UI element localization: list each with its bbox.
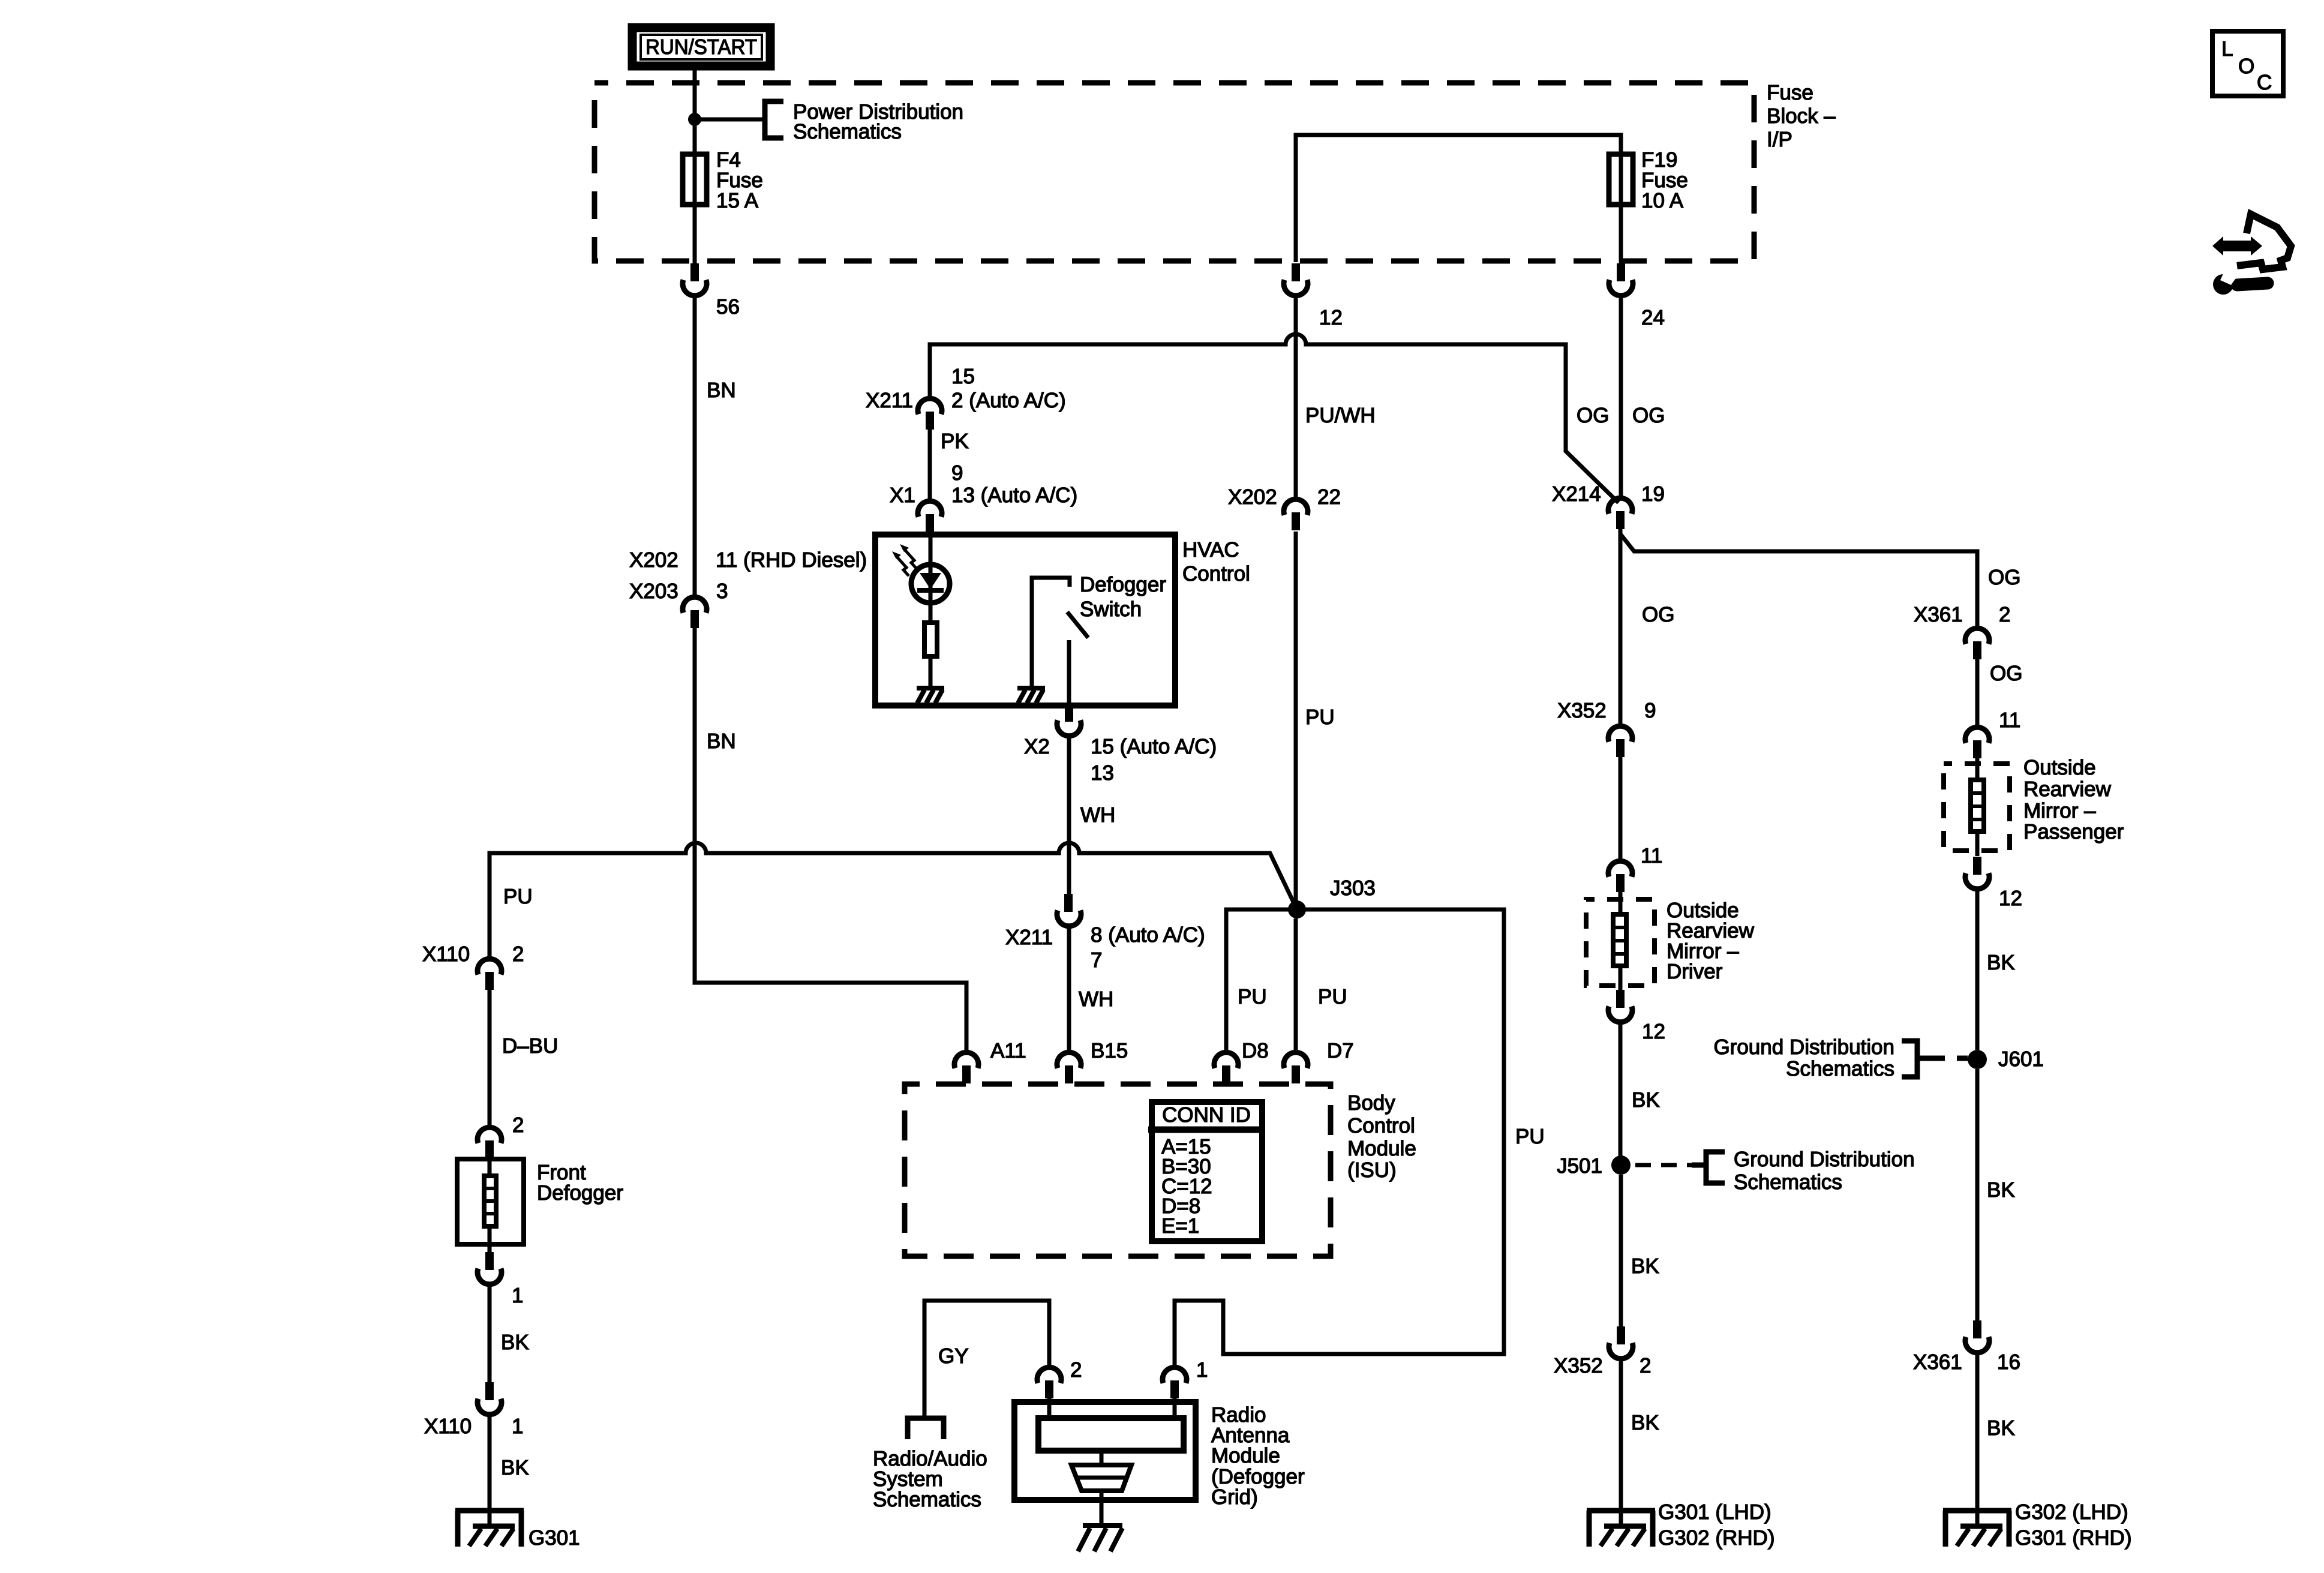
HVAC Control box (875, 535, 1175, 706)
svg-text:7: 7 (1091, 948, 1102, 972)
label G301 (LHD) G302 (RHD) (1658, 1500, 1774, 1550)
connector radio antenna pin 2 (1037, 1367, 1061, 1398)
svg-text:D7: D7 (1327, 1039, 1354, 1062)
label X110 1 (424, 1415, 523, 1438)
svg-text:BK: BK (1987, 951, 2015, 974)
label F19 Fuse 10 A (1641, 148, 1688, 212)
connector pin 24 (1609, 263, 1633, 296)
ground chassis switch leg (1017, 688, 1045, 703)
off-page bracket Power Distribution (765, 101, 783, 138)
label HVAC Control (1182, 538, 1250, 586)
outside rearview mirror passenger dashed box (1944, 764, 2010, 851)
wire BK X352-2 to G301 (1619, 1359, 1623, 1527)
svg-text:OG: OG (1990, 662, 2022, 685)
wire BK defogger to X110-1 (488, 1284, 492, 1382)
wire X1 into HVAC (929, 532, 933, 562)
svg-text:Schematics: Schematics (1786, 1057, 1894, 1080)
connector X214 pin 19 (1608, 498, 1632, 529)
svg-text:Defogger: Defogger (537, 1181, 623, 1205)
antenna element bar in radio module (1038, 1398, 1184, 1451)
svg-text:X110: X110 (424, 1415, 472, 1438)
label Front Defogger (537, 1161, 623, 1205)
svg-text:11: 11 (1999, 709, 2020, 732)
connector X352 pin 9 (1608, 726, 1632, 757)
label Body Control Module (ISU) (1347, 1091, 1416, 1182)
resistor grid front defogger (482, 1158, 498, 1252)
label F4 Fuse 15 A (716, 148, 763, 212)
svg-text:12: 12 (1319, 306, 1343, 329)
svg-text:BK: BK (1632, 1088, 1660, 1112)
wire BK X110-1 to G301 (488, 1415, 492, 1527)
svg-text:56: 56 (716, 295, 740, 319)
wire J303 to D7 (1294, 918, 1298, 1052)
wire fuse block top bus to F19 (1296, 135, 1621, 262)
wire OG X361 to passenger mirror (1975, 659, 1980, 727)
connector B15 (1057, 1052, 1081, 1083)
svg-text:24: 24 (1641, 306, 1665, 329)
svg-text:Schematics: Schematics (793, 120, 902, 143)
label Radio Antenna Module (Defogger Grid) (1211, 1403, 1305, 1509)
svg-text:12: 12 (1999, 887, 2022, 910)
svg-text:D8: D8 (1242, 1039, 1269, 1062)
svg-text:WH: WH (1079, 987, 1113, 1011)
label Outside Rearview Mirror - Passenger (2023, 756, 2124, 843)
svg-text:PU: PU (1305, 706, 1335, 729)
front defogger box (457, 1159, 524, 1244)
wire BK J501 to X352-2 (1619, 1175, 1623, 1326)
svg-text:11 (RHD Diesel): 11 (RHD Diesel) (716, 548, 867, 572)
label X202 X203 pins 11/3 (629, 548, 867, 603)
label X361 16 (1913, 1350, 2020, 1374)
svg-text:C: C (2257, 71, 2272, 94)
svg-text:Module: Module (1347, 1137, 1416, 1160)
svg-text:PU: PU (503, 885, 533, 908)
svg-text:X2: X2 (1024, 735, 1050, 758)
svg-text:1: 1 (512, 1284, 523, 1307)
svg-text:Switch: Switch (1080, 598, 1142, 621)
svg-text:1: 1 (512, 1415, 523, 1438)
label X2 15 (Auto A/C) 13 (1024, 735, 1217, 785)
resistor heater passenger mirror (1969, 758, 1986, 856)
connector D7 (1284, 1052, 1308, 1083)
label Defogger Switch (1080, 573, 1166, 621)
connector X361 pin 2 (1965, 628, 1989, 659)
svg-text:Body: Body (1347, 1091, 1395, 1115)
svg-text:OG: OG (1642, 603, 1674, 626)
connector X202/X203 pin 3 (683, 597, 707, 628)
label Ground Distribution Schematics (J601) (1713, 1035, 1894, 1080)
wire PU X202-22 to J303 (1294, 532, 1298, 909)
svg-text:12: 12 (1642, 1020, 1665, 1043)
fuse block I/P dashed box (594, 83, 1754, 261)
off-page bracket Ground Distribution (J501) (1692, 1152, 1725, 1183)
off-page bracket Ground Distribution (J601) (1902, 1041, 1945, 1077)
connector A11 (954, 1052, 978, 1083)
svg-text:X214: X214 (1552, 482, 1601, 506)
ground G301/G302 driver (1587, 1511, 1655, 1547)
svg-text:10 A: 10 A (1641, 189, 1684, 212)
connector X211 pin 8/7 (1057, 894, 1081, 926)
svg-text:9: 9 (951, 461, 963, 485)
LED indicator lamp in HVAC (892, 544, 950, 620)
label Outside Rearview Mirror - Driver (1667, 899, 1755, 983)
wire resistor to ground (929, 659, 933, 688)
label Radio/Audio System Schematics (873, 1447, 987, 1511)
svg-text:E=1: E=1 (1161, 1214, 1199, 1238)
svg-text:2: 2 (1999, 603, 2010, 626)
wire junction to Power Distribution bracket (695, 118, 762, 122)
svg-text:Schematics: Schematics (873, 1488, 981, 1511)
svg-text:11: 11 (1641, 844, 1662, 867)
label X211 8 (Auto A/C) 7 (1005, 923, 1205, 972)
svg-text:Passenger: Passenger (2023, 820, 2124, 843)
connector passenger mirror pin 11 (1965, 727, 1989, 758)
svg-text:PU/WH: PU/WH (1305, 404, 1376, 427)
svg-text:13: 13 (1091, 761, 1114, 785)
svg-text:OG: OG (1632, 404, 1665, 427)
wire PK X211 to X1 (928, 430, 932, 501)
connector driver mirror pin 11 (1608, 861, 1632, 892)
svg-text:B15: B15 (1091, 1039, 1128, 1062)
label X214 19 (1552, 482, 1665, 506)
connector front defogger pin 1 (478, 1252, 502, 1284)
connector X352 pin 2 (1609, 1326, 1633, 1359)
svg-text:15 (Auto A/C): 15 (Auto A/C) (1091, 735, 1217, 758)
wire BK driver mirror to J501 (1619, 1022, 1623, 1165)
svg-text:9: 9 (1644, 699, 1656, 722)
svg-text:D–BU: D–BU (502, 1034, 558, 1058)
svg-text:X202: X202 (629, 548, 678, 572)
svg-text:15: 15 (951, 365, 975, 388)
node junction at F4 feed (688, 113, 701, 126)
node J501 junction (1611, 1155, 1631, 1175)
svg-text:HVAC: HVAC (1182, 538, 1239, 562)
connector passenger mirror pin 12 (1965, 857, 1989, 889)
svg-text:J601: J601 (1998, 1047, 2044, 1071)
svg-text:BK: BK (1631, 1254, 1659, 1278)
connector X110 pin 1 (478, 1382, 502, 1415)
svg-text:PU: PU (1515, 1125, 1545, 1148)
svg-text:(ISU): (ISU) (1347, 1158, 1397, 1182)
ground chassis radio antenna (1078, 1526, 1122, 1551)
svg-text:Control: Control (1347, 1114, 1415, 1137)
svg-text:Module: Module (1211, 1444, 1280, 1467)
svg-text:BK: BK (501, 1456, 529, 1479)
svg-text:X211: X211 (1005, 926, 1053, 949)
svg-text:G301 (LHD): G301 (LHD) (1658, 1500, 1771, 1524)
wire OG X352-9 to driver mirror (1619, 757, 1623, 861)
svg-text:OG: OG (1577, 404, 1609, 427)
svg-text:Grid): Grid) (1211, 1485, 1258, 1509)
connector X361 pin 16 (1965, 1320, 1989, 1353)
Body Control Module dashed box (905, 1084, 1331, 1256)
svg-text:16: 16 (1997, 1350, 2020, 1374)
svg-text:RUN/START: RUN/START (645, 35, 757, 59)
label X361 2 (1914, 603, 2010, 626)
wire RUN/START to fuse block (693, 66, 697, 119)
leader dash to J601 (1957, 1056, 1968, 1061)
defogger switch in HVAC (1032, 578, 1088, 705)
wire BK J601 to X361-16 (1975, 1069, 1980, 1320)
wire F19 to pin 24 (1619, 207, 1623, 265)
label pin 9 / 13 (890, 461, 1077, 507)
node J601 junction (1968, 1050, 1987, 1069)
svg-text:8 (Auto A/C): 8 (Auto A/C) (1091, 923, 1205, 947)
svg-text:PU: PU (1238, 985, 1267, 1008)
wire GY radio branch (924, 1301, 1049, 1416)
svg-text:X361: X361 (1913, 1350, 1962, 1374)
resistor in HVAC LED leg (924, 623, 937, 656)
svg-text:Schematics: Schematics (1734, 1170, 1842, 1194)
svg-text:X202: X202 (1228, 485, 1277, 509)
connector X211 pin 2 (918, 398, 942, 430)
label OG OG (1577, 404, 1665, 427)
wire PU J303 to radio antenna loop (1175, 909, 1504, 1367)
svg-text:X352: X352 (1557, 699, 1607, 722)
label X110 2 (422, 942, 524, 966)
connector X202 pin 22 (1284, 499, 1308, 530)
svg-text:Mirror –: Mirror – (2023, 799, 2096, 822)
label X352 9 (1557, 699, 1656, 722)
radio antenna module box (1014, 1402, 1196, 1500)
svg-text:PU: PU (1318, 985, 1347, 1008)
label X352 2 (1554, 1354, 1651, 1377)
svg-text:L: L (2221, 37, 2233, 61)
svg-text:Block –: Block – (1767, 104, 1836, 128)
outside rearview mirror driver dashed box (1586, 899, 1655, 986)
svg-text:Driver: Driver (1667, 960, 1723, 983)
label Ground Distribution Schematics (J501) (1734, 1148, 1915, 1194)
svg-text:3: 3 (716, 580, 728, 603)
wire main PU bus from defogger branch to J303 (490, 843, 1296, 959)
svg-text:2: 2 (1070, 1358, 1082, 1382)
ground G301 left (455, 1511, 524, 1547)
svg-text:Ground Distribution: Ground Distribution (1713, 1035, 1894, 1059)
label circuit 15 / 2 (Auto A/C) (866, 365, 1066, 412)
svg-text:GY: GY (938, 1344, 969, 1368)
svg-text:Ground Distribution: Ground Distribution (1734, 1148, 1915, 1171)
label Fuse Block - I/P (1767, 81, 1836, 151)
svg-text:A11: A11 (990, 1039, 1026, 1062)
svg-text:Rearview: Rearview (2023, 778, 2112, 801)
node RUN/START (power feed box) (632, 28, 770, 66)
svg-text:15 A: 15 A (716, 189, 759, 212)
wire X214 down and branch to passenger mirror (1619, 529, 1623, 726)
svg-text:22: 22 (1317, 485, 1341, 509)
svg-text:G302 (LHD): G302 (LHD) (2015, 1500, 2128, 1524)
svg-text:Defogger: Defogger (1080, 573, 1166, 596)
svg-text:BK: BK (1987, 1416, 2015, 1440)
leader dashed J501 to bracket (1635, 1163, 1693, 1167)
resistor heater driver mirror (1611, 892, 1628, 990)
wire WH X211 to B15 (1067, 926, 1071, 1052)
ground G302/G301 passenger (1943, 1511, 2011, 1547)
svg-text:Outside: Outside (2023, 756, 2096, 779)
wire D-BU X110 to front defogger (488, 990, 492, 1127)
svg-text:OG: OG (1988, 566, 2020, 589)
svg-text:CONN ID: CONN ID (1162, 1103, 1251, 1127)
svg-text:2: 2 (1640, 1354, 1651, 1377)
wire BK X361-16 to G302 (1975, 1353, 1980, 1527)
svg-text:BN: BN (707, 730, 736, 753)
svg-text:2 (Auto A/C): 2 (Auto A/C) (951, 389, 1066, 412)
svg-text:BN: BN (707, 379, 736, 402)
svg-text:O: O (2238, 55, 2254, 78)
node J303 junction (1288, 900, 1306, 918)
svg-text:PK: PK (941, 430, 969, 453)
ground chassis LED leg (917, 688, 944, 703)
svg-text:WH: WH (1080, 803, 1115, 827)
svg-text:X352: X352 (1554, 1354, 1603, 1377)
svg-text:X361: X361 (1914, 603, 1963, 626)
svg-text:13 (Auto A/C): 13 (Auto A/C) (951, 484, 1077, 507)
connector X110 pin 2 (478, 959, 502, 990)
connector X1 pin 13 (918, 501, 942, 532)
connector front defogger pin 2 (478, 1127, 502, 1158)
svg-text:X211: X211 (866, 389, 913, 412)
antenna cone symbol (1071, 1454, 1131, 1526)
off-page bracket Radio/Audio (908, 1418, 944, 1439)
svg-text:J303: J303 (1330, 876, 1376, 900)
svg-text:BK: BK (1987, 1178, 2015, 1202)
label Power Distribution Schematics (793, 100, 963, 143)
connector D8 (1214, 1052, 1238, 1083)
wire PU/WH pin 12 to X202-22 (1294, 296, 1298, 499)
wire BN pin 56 to X203 (693, 296, 697, 597)
svg-text:G302 (RHD): G302 (RHD) (1658, 1526, 1774, 1550)
svg-text:X203: X203 (629, 580, 678, 603)
svg-text:2: 2 (512, 942, 524, 966)
svg-text:BK: BK (1631, 1411, 1659, 1434)
symbol service icon arrow and wrench (2212, 214, 2291, 295)
fuse F4 15A (683, 152, 707, 207)
svg-text:BK: BK (501, 1331, 529, 1354)
wire F4 to pin 56 (693, 207, 697, 265)
svg-text:X1: X1 (890, 484, 915, 507)
fuse F19 10A (1609, 152, 1633, 207)
wire BN X203 to corner and A11 (695, 628, 966, 1052)
wire J303 to D8 (1226, 909, 1297, 1052)
svg-text:I/P: I/P (1767, 128, 1792, 151)
svg-text:1: 1 (1196, 1358, 1208, 1382)
connector driver mirror pin 12 (1608, 990, 1632, 1022)
connector X2 pin 15/13 (1057, 704, 1081, 736)
label G302 (LHD) G301 (RHD) (2015, 1500, 2131, 1550)
wire WH X2 to X211-8 (1067, 736, 1071, 894)
wire junction to fuse F4 (693, 119, 697, 152)
svg-text:G301: G301 (529, 1526, 580, 1550)
wire OG pin 24 to X214 (1619, 296, 1623, 498)
svg-text:2: 2 (512, 1113, 524, 1137)
connector pin 56 (683, 263, 707, 296)
wire BK passenger mirror to J601 (1975, 889, 1980, 1050)
label X202 22 (1228, 485, 1341, 509)
svg-text:19: 19 (1641, 482, 1665, 506)
svg-text:G301 (RHD): G301 (RHD) (2015, 1526, 2131, 1550)
svg-text:Control: Control (1182, 562, 1250, 586)
connector radio antenna pin 1 (1163, 1367, 1187, 1398)
symbol LOC reference box (2212, 31, 2283, 96)
svg-text:Fuse: Fuse (1767, 81, 1813, 104)
svg-text:J501: J501 (1557, 1154, 1602, 1178)
CONN ID table (1148, 1102, 1265, 1241)
connector pin 12 (1284, 263, 1308, 296)
svg-text:X110: X110 (422, 942, 470, 966)
wire 15 feed to X214 (OG) (930, 334, 1619, 503)
wire branch OG to right column (1620, 534, 1977, 628)
